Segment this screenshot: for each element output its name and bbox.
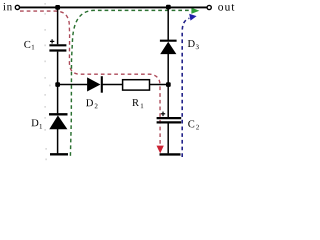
resistor R1 — [123, 80, 150, 90]
junction top-right — [166, 5, 171, 10]
diode D3 (pointing up) — [160, 41, 177, 54]
diode D2 (pointing right) — [87, 76, 102, 93]
junction mid-right — [166, 82, 171, 87]
junction mid-left — [55, 82, 60, 87]
ground bar right — [160, 153, 181, 155]
wire right branch upper (rail to D3) — [167, 7, 169, 40]
label C2 — [188, 120, 199, 129]
label D2 — [86, 99, 97, 108]
red arrowhead (down) — [157, 146, 164, 154]
ground bar left — [50, 153, 68, 155]
node label in — [3, 3, 12, 10]
junction top-left — [55, 5, 60, 10]
blue arrowhead (right-up) — [189, 14, 196, 21]
capacitor C1 — [49, 39, 66, 50]
current path red (charge path) — [20, 11, 160, 146]
wire D2 to R1 — [102, 84, 123, 86]
diode D1 (pointing up) — [49, 114, 68, 129]
wire left branch upper (rail to C1) — [57, 7, 59, 44]
current path green (discharge path) — [70, 10, 191, 155]
label D3 — [188, 40, 199, 49]
label C1 — [24, 41, 34, 50]
wire left branch middle (C1 to node A) — [57, 52, 59, 114]
terminal out — [207, 5, 211, 9]
wire R1 to node B — [150, 84, 169, 86]
wire top rail in-to-out — [20, 6, 207, 8]
green arrowhead (right) — [191, 8, 199, 14]
current path blue (output) — [182, 18, 189, 157]
terminal in — [15, 5, 19, 9]
wire left branch lower (D1 to bottom bar) — [57, 129, 59, 153]
capacitor C2 — [157, 112, 182, 123]
grid dots column — [45, 3, 51, 160]
wire right branch middle (D3 to node B to C2) — [167, 54, 169, 117]
node label out — [218, 4, 234, 11]
label D1 — [32, 119, 43, 128]
label R1 — [132, 99, 143, 108]
wire middle horizontal (node A to D2) — [58, 84, 88, 86]
wire right branch lower (C2 to bottom bar) — [167, 123, 169, 153]
